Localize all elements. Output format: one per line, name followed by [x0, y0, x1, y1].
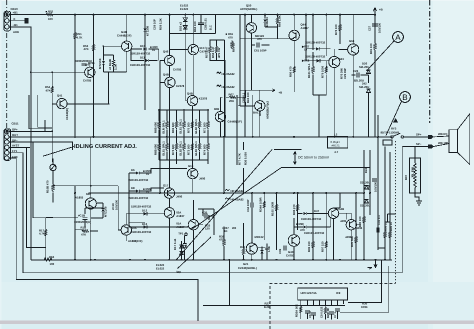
svg-text:92B: 92B [214, 107, 219, 111]
svg-text:D.C: D.C [209, 25, 213, 30]
transistor Q3A A1860 [85, 198, 96, 209]
svg-text:GL81 SPL1: GL81 SPL1 [161, 141, 165, 156]
lower diode ladder left [136, 171, 139, 174]
MTZ column tie [67, 55, 113, 104]
svg-text:C4448(E/F): C4448(E/F) [117, 34, 132, 38]
svg-text:R78 100: R78 100 [334, 24, 338, 35]
svg-text:R6B 680: R6B 680 [153, 122, 157, 133]
transistor Q44 A1837 [289, 30, 299, 40]
svg-text:R24 100: R24 100 [246, 92, 250, 103]
bottom diode row 2 [303, 225, 306, 228]
svg-text:FHC: FHC [12, 155, 18, 159]
zener MTZ lower [101, 208, 104, 211]
svg-text:A1837: A1837 [176, 214, 185, 218]
svg-text:4.7: 4.7 [334, 150, 338, 154]
zener KTZ308 [143, 28, 146, 31]
diode D56 [183, 25, 187, 29]
speaker terminals [428, 135, 434, 149]
svg-text:C34 100P: C34 100P [246, 199, 250, 212]
capacitor C30 [372, 179, 377, 181]
svg-text:100/100: 100/100 [378, 22, 382, 33]
svg-text:E: E [14, 17, 16, 21]
svg-text:R86 10: R86 10 [384, 222, 388, 231]
svg-text:9DT/9-1120HR: 9DT/9-1120HR [381, 131, 400, 135]
svg-text:R64 22: R64 22 [232, 43, 236, 52]
trimmer VR idling [50, 158, 56, 183]
svg-text:■ R99: ■ R99 [296, 222, 304, 226]
svg-text:A1837: A1837 [301, 26, 310, 30]
top right R column [374, 42, 377, 51]
HP marks lower [225, 189, 230, 199]
svg-text:IC9: IC9 [336, 291, 341, 295]
svg-text:K2378: K2378 [176, 84, 185, 88]
wire: protection feed [203, 305, 345, 307]
relay coil [383, 140, 392, 145]
svg-text:GL83 SPL1: GL83 SPL1 [194, 141, 198, 156]
svg-text:OP−: OP− [12, 138, 18, 142]
svg-text:#C51: #C51 [88, 61, 95, 65]
svg-text:1N5283: 1N5283 [265, 17, 269, 27]
svg-text:W2: W2 [232, 226, 237, 230]
wire: IC out right [348, 261, 382, 303]
svg-text:HP-05A82: HP-05A82 [222, 85, 236, 89]
svg-text:GL82 SPL1: GL82 SPL1 [194, 119, 198, 134]
svg-text:R73 560: R73 560 [187, 144, 191, 155]
leader line to trimmer [43, 147, 74, 157]
svg-text:IDLING CURRENT ADJ.: IDLING CURRENT ADJ. [74, 144, 137, 150]
svg-text:D24: D24 [364, 167, 368, 173]
svg-text:J405: J405 [340, 219, 347, 223]
cap C34 [251, 203, 253, 208]
cap near Q4C [284, 246, 286, 251]
svg-text:K2378: K2378 [199, 97, 208, 101]
resistor R78 [339, 23, 342, 32]
capacitor C51 [82, 64, 87, 66]
svg-text:47K: 47K [84, 47, 89, 51]
svg-text:R96 150: R96 150 [307, 241, 311, 252]
svg-text:#C1B: #C1B [78, 213, 85, 217]
svg-text:R87: R87 [404, 174, 408, 180]
svg-text:R72 680: R72 680 [171, 144, 175, 155]
svg-text:4PS 1W: 4PS 1W [217, 47, 221, 58]
svg-text:tag: tag [177, 270, 181, 274]
svg-text:D8: D8 [131, 186, 135, 190]
wire: E pin stub [10, 20, 26, 22]
svg-text:J406: J406 [176, 194, 183, 198]
svg-text:20K: 20K [229, 99, 234, 103]
transistor Q43 C4448 [122, 41, 132, 51]
transistor Q48 K2378 [187, 96, 197, 106]
wire: -B1 feed down left side [10, 27, 31, 260]
svg-text:HP-05A82: HP-05A82 [222, 72, 236, 76]
svg-text:WB RC: WB RC [438, 132, 447, 136]
svg-text:120: 120 [205, 226, 210, 230]
diode D24 S2L20U right column [365, 186, 369, 189]
svg-text:C39: C39 [278, 248, 282, 254]
svg-text:R70 560: R70 560 [187, 122, 191, 133]
svg-text:OUT: OUT [12, 133, 18, 137]
svg-text:G63: G63 [339, 57, 345, 61]
svg-text:15R139-400T32: 15R139-400T32 [301, 217, 322, 221]
HP-05A8 gate marks upper [217, 72, 222, 87]
svg-text:100: 100 [50, 262, 55, 266]
DC measurement arrow [274, 150, 370, 168]
svg-text:82L20U: 82L20U [354, 79, 364, 83]
svg-text:R74 560: R74 560 [202, 144, 206, 155]
transistor Q13 J406 [188, 168, 198, 178]
svg-text:OP+: OP+ [12, 127, 18, 131]
coil L2 on output line [328, 136, 348, 148]
svg-text:C26: C26 [353, 69, 359, 73]
svg-text:JPL EML: JPL EML [411, 166, 415, 178]
svg-text:R69 680: R69 680 [171, 122, 175, 133]
svg-text:C6B 0.1: C6B 0.1 [241, 92, 245, 103]
svg-text:15R139-400T32: 15R139-400T32 [130, 63, 151, 67]
+B arrow top [373, 8, 376, 15]
resistor R79 [325, 65, 328, 74]
svg-text:A1803: A1803 [75, 195, 84, 199]
diode D18 [180, 252, 184, 255]
svg-text:1.5K: 1.5K [267, 246, 271, 252]
svg-text:C6 47: C6 47 [308, 310, 312, 318]
svg-text:R57 0.47: R57 0.47 [205, 46, 209, 58]
svg-text:R105 100R: R105 100R [271, 202, 275, 216]
resistor R80 [293, 65, 296, 74]
speaker [434, 114, 470, 164]
resistor R51 [74, 31, 77, 40]
svg-text:D10: D10 [140, 44, 146, 48]
svg-text:CB11: CB11 [12, 122, 19, 126]
svg-text:R90 100: R90 100 [358, 216, 362, 227]
svg-text:AYST: AYST [12, 144, 19, 148]
transistor Q64 K2378 [348, 44, 359, 55]
svg-text:47K: 47K [46, 88, 51, 92]
capacitor C27 top right [372, 24, 378, 36]
wire: CB11 AYST routed around bottom [10, 146, 30, 148]
svg-text:100: 100 [48, 17, 53, 21]
svg-text:R101 SPL1: R101 SPL1 [307, 63, 311, 78]
svg-text:C4448(E/F): C4448(E/F) [228, 120, 243, 124]
wire: CB11 FY1 routed bottom loop [10, 147, 403, 273]
input left vertical [31, 71, 53, 73]
svg-text:R10B 470: R10B 470 [46, 180, 50, 193]
diode D55 [183, 18, 187, 22]
svg-text:470: 470 [228, 35, 233, 39]
svg-text:GLR SPL1: GLR SPL1 [161, 120, 165, 134]
svg-text:S2L20U: S2L20U [360, 204, 370, 208]
circled B [386, 92, 410, 136]
transistor Q63 K2378 [329, 56, 340, 67]
right J406 pair wiring [334, 208, 361, 225]
svg-text:R97 150: R97 150 [321, 241, 325, 252]
scan artifact band [0, 321, 474, 325]
cap C26 top right [357, 73, 359, 78]
diode D60 [316, 47, 319, 50]
svg-text:15R139-400T32: 15R139-400T32 [131, 205, 152, 209]
svg-text:C30: C30 [367, 184, 371, 190]
svg-text:R6B 680: R6B 680 [153, 144, 157, 155]
svg-text:1K: 1K [224, 229, 228, 233]
svg-text:x2 R44B: x2 R44B [108, 59, 112, 70]
resistor R53 [92, 43, 95, 52]
svg-text:C4793: C4793 [286, 253, 295, 257]
transistor Q46 C4793 [164, 55, 174, 65]
IC bottom components [300, 305, 303, 314]
G20 top label wire [251, 14, 265, 16]
transistor Q29 A992 [255, 101, 265, 111]
svg-text:TP1: TP1 [178, 232, 184, 236]
svg-text:R71 560: R71 560 [202, 122, 206, 133]
svg-text:C61 100P: C61 100P [254, 49, 267, 53]
svg-text:S2L20U: S2L20U [359, 65, 369, 69]
resistor R44 [112, 59, 115, 68]
resistor R101 [312, 65, 315, 74]
+B mid arrow [272, 89, 275, 92]
svg-text:L2: L2 [334, 133, 338, 137]
wire: mid rail y=193 [89, 192, 365, 194]
resistor R52 on top rail [46, 13, 53, 16]
svg-text:SP−: SP− [416, 142, 422, 146]
svg-text:R80 470: R80 470 [288, 66, 292, 77]
svg-text:Q46: Q46 [163, 50, 169, 54]
svg-text:G64: G64 [349, 39, 355, 43]
transistor Q45 C4793 [85, 67, 95, 77]
dashed box protection circuit [270, 283, 396, 329]
bottom rail components: diodes EL022 [181, 241, 183, 260]
svg-text:R34A 100R: R34A 100R [259, 197, 263, 212]
svg-text:SP+: SP+ [416, 132, 422, 136]
svg-text:C5B 0.01: C5B 0.01 [204, 18, 208, 30]
svg-text:R41: R41 [240, 245, 246, 249]
transistor Q50 A970 [246, 23, 256, 33]
diode D51 vertical [263, 19, 266, 22]
wire junction dots [74, 14, 365, 261]
svg-text:4.7K: 4.7K [77, 35, 83, 39]
svg-text:R98 470: R98 470 [292, 204, 296, 215]
right column resistors above rail [312, 240, 315, 249]
board boundary dash-dot line left [6, 0, 8, 128]
svg-text:A992(BL/Y)x2: A992(BL/Y)x2 [265, 101, 269, 119]
transistor Q23 J406 [346, 220, 356, 230]
svg-text:C27: C27 [368, 25, 372, 31]
transistor Q5A A1860 [121, 225, 131, 235]
svg-text:100K: 100K [361, 305, 368, 309]
wire: IC out right 2 [340, 266, 389, 312]
svg-text:3300/2000(K): 3300/2000(K) [74, 220, 91, 224]
dotted line relay-protection [395, 141, 397, 283]
svg-text:R36 0.508: R36 0.508 [244, 152, 248, 165]
bottom center resistors [263, 200, 266, 209]
diode D17 [180, 245, 184, 248]
caps near TP1 [205, 214, 207, 219]
svg-text:R79 1000: R79 1000 [321, 65, 325, 78]
svg-text:C4793: C4793 [83, 79, 92, 83]
scan edge highlights [0, 0, 474, 1]
svg-text:C2240(GR/BL): C2240(GR/BL) [238, 266, 257, 270]
wire: output line to relay [10, 136, 393, 138]
resistor R67 [229, 96, 236, 99]
wire: CB11 FHC routed bottom loop [10, 158, 199, 321]
svg-text:R62 100: R62 100 [193, 21, 197, 32]
svg-text:MTZJ08: MTZJ08 [104, 206, 108, 217]
transistor Q2A A1837 [164, 208, 174, 218]
svg-text:R67: R67 [229, 92, 235, 96]
svg-text:#R171: #R171 [332, 143, 341, 147]
svg-text:UPC1237HA: UPC1237HA [301, 291, 317, 295]
svg-text:HP-05A82: HP-05A82 [231, 189, 245, 193]
svg-text:MTZJ08: MTZJ08 [98, 58, 102, 69]
svg-text:R81 100: R81 100 [369, 43, 373, 54]
connector CB11 [4, 129, 11, 161]
wire: CB11 OP- line [10, 142, 73, 150]
svg-text:8.2K: 8.2K [264, 305, 270, 309]
svg-text:■ R52: ■ R52 [46, 10, 54, 14]
main vertical wires [75, 15, 390, 260]
svg-text:+B: +B [279, 90, 283, 94]
transistor Q2B C4448 [215, 112, 225, 122]
Q21 base parts [260, 250, 263, 253]
svg-text:D12: D12 [142, 209, 148, 213]
svg-text:DC 50mV to 250mV: DC 50mV to 250mV [298, 156, 330, 160]
svg-text:C29 39P: C29 39P [343, 68, 347, 79]
svg-text:47K: 47K [81, 232, 86, 236]
svg-text:G17: G17 [163, 183, 169, 187]
feedback routing [27, 142, 79, 260]
svg-text:KTZ308: KTZ308 [146, 25, 150, 36]
wire: bottom -B rail [31, 259, 392, 261]
top rail junction extras [30, 14, 386, 261]
IC9 UPC1237HA [298, 288, 348, 306]
cap C1B feedback [83, 218, 88, 220]
svg-text:+B1: +B1 [13, 11, 19, 15]
source resistors 0.47 [209, 45, 212, 54]
resistor R66 [276, 16, 279, 25]
svg-text:D6: D6 [131, 168, 135, 172]
svg-text:100/100: 100/100 [374, 181, 378, 192]
transistor Q21 C2240 [246, 243, 257, 254]
svg-text:C1840(E): C1840(E) [65, 108, 69, 120]
svg-text:D17 0.44: D17 0.44 [173, 238, 177, 250]
transistor Q1A A1837 [188, 220, 198, 230]
svg-text:D55 x2: D55 x2 [178, 22, 182, 31]
svg-text:100/100: 100/100 [115, 199, 119, 210]
svg-text:GL82 SPL1: GL82 SPL1 [178, 141, 182, 156]
svg-text:A: A [395, 33, 401, 42]
transistor Q41 C1840 [57, 98, 67, 108]
transistor Q17 J406 [164, 188, 174, 198]
wire: CB11 OP+ line [10, 120, 46, 131]
bottom rail resistor R63 [44, 258, 52, 261]
bottom diode row 1 [303, 212, 306, 215]
svg-text:MR132: MR132 [255, 235, 264, 239]
connector CB10 [4, 11, 11, 31]
svg-text:B: B [402, 93, 407, 102]
svg-text:Q41: Q41 [57, 94, 63, 98]
svg-text:C59 10P: C59 10P [153, 19, 157, 30]
svg-text:R95 56K: R95 56K [350, 236, 354, 247]
input resistor R54 [51, 85, 54, 94]
svg-text:R77 4.7K: R77 4.7K [238, 153, 242, 165]
middle SPL resistor bank row1 [153, 110, 209, 164]
svg-text:15R139-400T32: 15R139-400T32 [128, 196, 149, 200]
transistor QD4B J406 [328, 208, 338, 218]
svg-text:HP-05A82: HP-05A82 [231, 198, 245, 202]
A CLASS diagonal wires [176, 150, 272, 260]
svg-text:FY1: FY1 [12, 149, 18, 153]
svg-text:S2L20U: S2L20U [360, 181, 370, 185]
svg-text:R26A 56K: R26A 56K [295, 304, 299, 317]
svg-text:C7 1: C7 1 [333, 312, 337, 318]
svg-text:15R139-400T32: 15R139-400T32 [131, 230, 152, 234]
transistor Q47 K2378 [165, 77, 175, 87]
svg-text:EL022: EL022 [156, 267, 165, 271]
middle SPL resistor bank row2 [158, 142, 161, 151]
svg-text:15R139-400T32: 15R139-400T32 [128, 178, 149, 182]
capacitor C58 [198, 23, 204, 25]
svg-text:Q4B: Q4B [187, 92, 193, 96]
ferrite bead on E [25, 19, 28, 23]
svg-text:D47: D47 [314, 209, 320, 213]
svg-text:R63: R63 [49, 255, 55, 259]
svg-text:C8 0.022: C8 0.022 [319, 306, 323, 318]
zener D41 MTZJ [102, 61, 105, 64]
board boundary dash-dot line right [429, 0, 431, 123]
diode D25 S2L20U right column [365, 200, 369, 203]
resistor R17 [45, 228, 48, 237]
svg-text:D11: D11 [140, 55, 145, 59]
resistor R1B [82, 230, 89, 233]
svg-text:+B: +B [379, 8, 383, 12]
wire: protection tap from rail [228, 260, 230, 306]
svg-text:J406: J406 [199, 176, 206, 180]
svg-text:R58 0.47: R58 0.47 [211, 46, 215, 58]
svg-text:4.7K: 4.7K [39, 232, 45, 236]
svg-text:GL81 SPL1: GL81 SPL1 [178, 119, 182, 134]
transistor Q51 C4793 [188, 44, 198, 54]
svg-text:2.2K: 2.2K [114, 64, 118, 70]
svg-text:63A: 63A [86, 192, 91, 196]
svg-text:−B1: −B1 [13, 23, 19, 27]
svg-text:R59 2.2K: R59 2.2K [159, 18, 163, 30]
svg-text:C4793: C4793 [173, 68, 182, 72]
diode D11 [145, 59, 148, 62]
svg-text:Q4B: Q4B [163, 73, 169, 77]
svg-text:15R139-400T32: 15R139-400T32 [304, 231, 325, 235]
diode D10 [143, 47, 146, 50]
-B arrow bottom [368, 260, 378, 269]
wire: top +B rail [10, 15, 393, 260]
resistor R87 network below speaker line [410, 147, 423, 206]
diode D63 [317, 59, 320, 62]
svg-text:S2L20U: S2L20U [359, 85, 369, 89]
resistor R10B [52, 183, 55, 192]
svg-text:A970(GR/BL): A970(GR/BL) [240, 7, 257, 11]
svg-text:A1888(E/F): A1888(E/F) [128, 239, 143, 243]
svg-text:EL022: EL022 [180, 7, 189, 11]
circled A [367, 32, 404, 71]
svg-text:AHD: AHD [13, 30, 19, 34]
svg-text:R2B 1K: R2B 1K [326, 308, 330, 318]
transistor Q4C C4793 [288, 235, 300, 247]
cap C61 [257, 43, 259, 48]
